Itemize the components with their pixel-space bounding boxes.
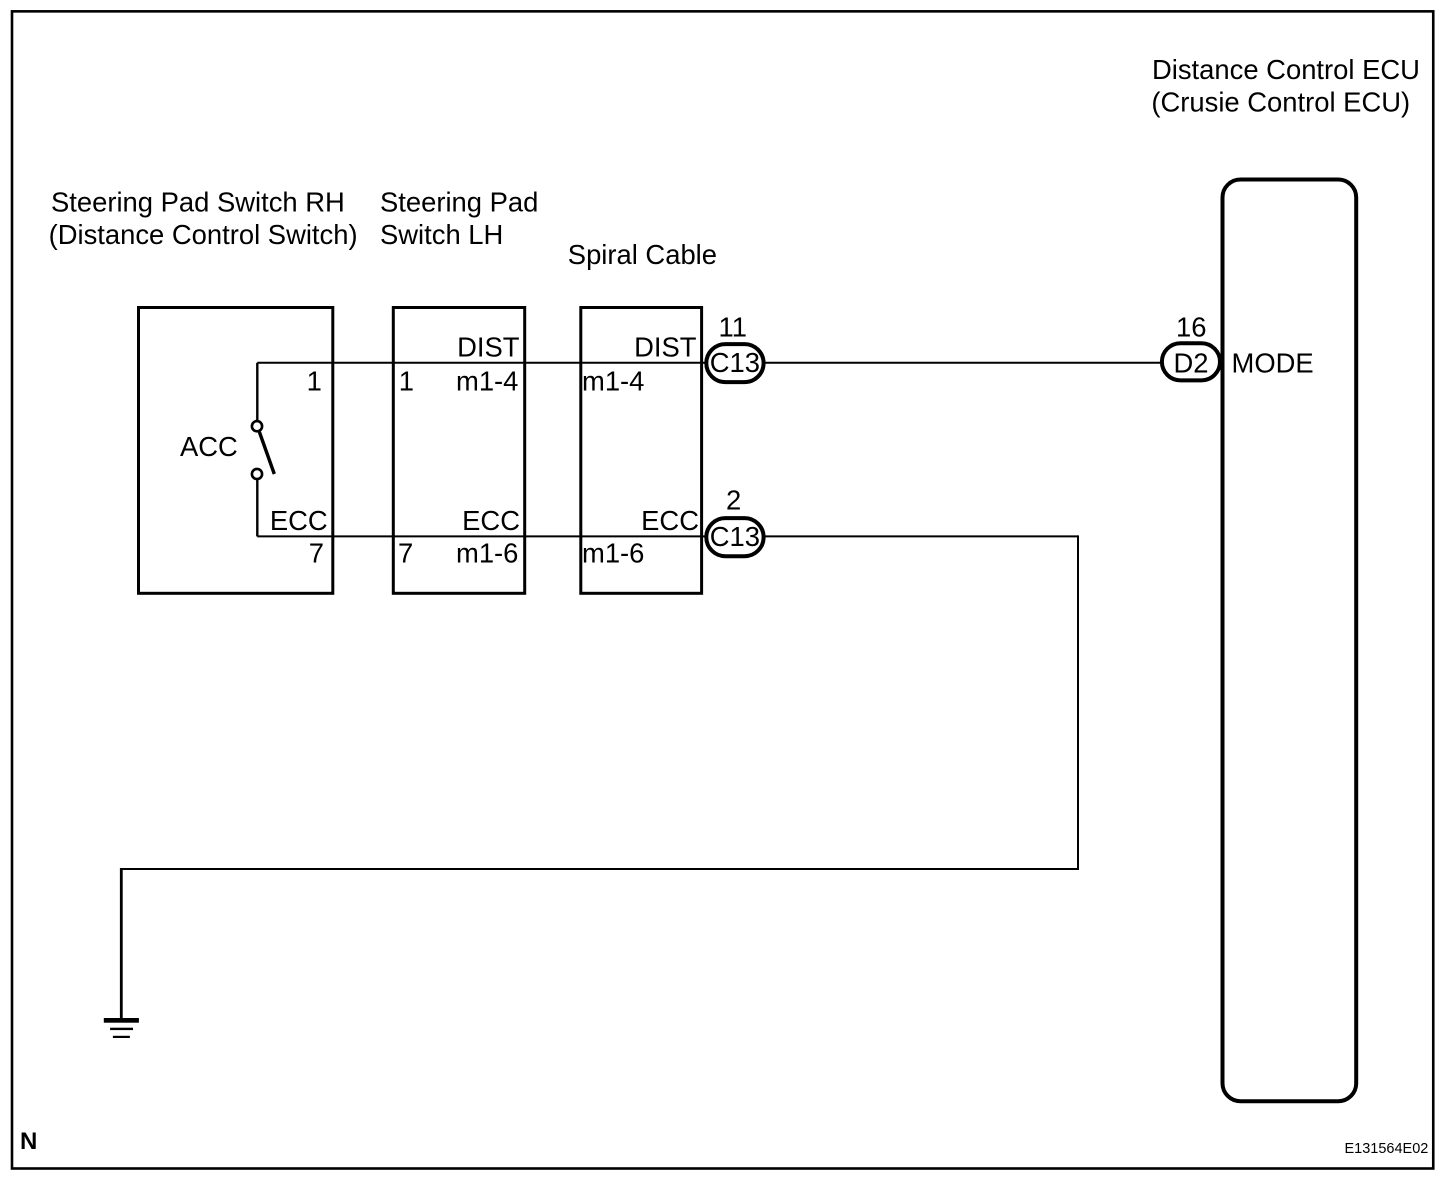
svg-text:11: 11 [719,312,747,343]
label Spiral Cable [568,239,717,270]
svg-text:(Distance Control Switch): (Distance Control Switch) [49,219,358,250]
connector C13 oval on DIST wire [706,344,763,382]
label Steering Pad Switch RH (Distance Control Switch) [49,187,358,251]
svg-text:DIST: DIST [634,332,697,363]
svg-text:DIST: DIST [457,332,520,363]
svg-text:m1-6: m1-6 [456,538,518,569]
svg-text:MODE: MODE [1232,348,1314,379]
svg-text:E131564E02: E131564E02 [1345,1141,1429,1157]
svg-text:m1-6: m1-6 [582,538,644,569]
switch ACC contact wire upper [256,363,258,422]
box Steering Pad Switch RH [139,308,333,594]
connector D2 oval at ECU [1162,343,1220,380]
svg-text:ECC: ECC [270,505,328,536]
wire left vertical drop to ground [120,868,123,1018]
switch ACC contact wire lower [256,479,258,536]
svg-text:2: 2 [726,485,741,516]
svg-text:Steering Pad: Steering Pad [380,187,538,218]
svg-text:C13: C13 [710,521,760,552]
svg-text:ECC: ECC [641,505,699,536]
svg-text:Distance Control ECU: Distance Control ECU [1152,54,1420,85]
ECU title text "Distance Control ECU (Crusie Control ECU)" [1151,54,1420,118]
svg-text:1: 1 [399,365,414,396]
svg-text:C13: C13 [710,347,760,378]
svg-text:7: 7 [309,538,324,569]
svg-text:Spiral Cable: Spiral Cable [568,239,717,270]
switch ACC blade [259,432,274,474]
wire bottom horizontal run to ground [121,868,1079,870]
wire DIST net from switch through connectors to ECU [257,362,1162,364]
wire vertical drop right of ECC net [1077,535,1079,869]
svg-text:7: 7 [398,538,413,569]
svg-text:Switch LH: Switch LH [380,219,503,250]
box Steering Pad Switch LH [393,308,524,594]
ECU box rounded rectangle [1223,180,1357,1102]
switch ACC lower terminal circle [252,469,262,479]
svg-text:N: N [20,1128,37,1155]
svg-text:1: 1 [307,365,322,396]
box Spiral Cable [581,308,702,594]
svg-text:m1-4: m1-4 [456,365,518,396]
switch ACC upper terminal circle [252,421,262,431]
label Steering Pad Switch LH [380,187,538,251]
svg-text:ECC: ECC [462,505,520,536]
svg-text:m1-4: m1-4 [582,365,644,396]
connector C13 oval on ECC wire [706,518,763,556]
svg-text:(Crusie Control ECU): (Crusie Control ECU) [1151,87,1410,118]
svg-text:16: 16 [1176,312,1206,343]
svg-text:D2: D2 [1173,348,1208,379]
svg-text:Steering Pad Switch RH: Steering Pad Switch RH [51,187,345,218]
wire ECC net from switch to spiral cable and down [257,535,1078,537]
ground symbol [104,1018,139,1038]
svg-text:ACC: ACC [180,431,238,462]
